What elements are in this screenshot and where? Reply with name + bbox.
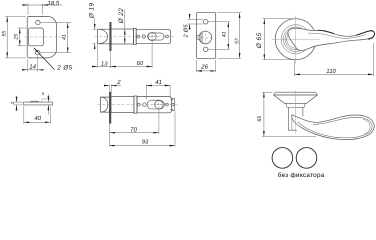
faceplate top hole [203, 19, 208, 24]
svg-text:14: 14 [29, 63, 36, 70]
svg-text:55: 55 [2, 31, 8, 37]
side view centerline [295, 90, 297, 133]
latch2 end tab hole [172, 103, 175, 106]
latch2 hole A [137, 103, 140, 106]
dim 2 dia5 faceplate [188, 18, 203, 20]
svg-text:18,5: 18,5 [48, 0, 60, 7]
latch2 tail plate [137, 96, 172, 112]
svg-text:Ø 19: Ø 19 [88, 2, 95, 19]
dim 57 faceplate [217, 12, 241, 14]
lever tip accent [356, 31, 374, 40]
dim 2 side [14, 101, 23, 103]
dim 25 [18, 27, 27, 29]
svg-text:13: 13 [101, 60, 108, 67]
strike plate centerline [25, 36, 62, 38]
latch1 collar [134, 28, 137, 44]
latch2 centerline [98, 104, 178, 106]
latch2 hole B [143, 103, 147, 107]
latch2 faceplate edge [109, 92, 111, 123]
latch1 tail plate [136, 29, 171, 43]
svg-text:26: 26 [200, 63, 208, 70]
latch2 bolt [100, 97, 111, 112]
svg-text:93: 93 [142, 139, 149, 146]
leader 2 dia 5 [34, 48, 55, 70]
svg-text:40: 40 [34, 115, 41, 122]
svg-text:60: 60 [137, 60, 144, 67]
strike plate cutout [28, 28, 43, 46]
dim dia65 top [263, 18, 296, 20]
strike plate front view body [27, 16, 56, 58]
svg-text:41: 41 [155, 79, 162, 86]
faceplate centerlines [198, 37, 214, 39]
grip inner accent [363, 119, 370, 134]
latch1 faceplate edge [110, 22, 112, 50]
latch1 bolt [97, 29, 110, 44]
latch2 hole C [166, 103, 169, 106]
svg-text:41: 41 [61, 34, 67, 40]
svg-text:65: 65 [257, 116, 263, 122]
lever crease line [308, 33, 366, 38]
latch1 spindle hub [148, 32, 156, 40]
svg-text:без фиксатора: без фиксатора [278, 172, 325, 179]
latch1 hole A [137, 35, 140, 38]
latch2 end tab [170, 99, 174, 111]
dim 55 [5, 15, 26, 17]
dim 2 latch2 [108, 85, 110, 91]
latch1 hole B [142, 35, 145, 38]
latch2 collar [134, 96, 137, 113]
dim 41 strike [41, 22, 72, 24]
rose crosshair [272, 38, 320, 40]
svg-text:2: 2 [116, 79, 121, 86]
option circle right [296, 148, 317, 169]
svg-text:25: 25 [13, 34, 19, 41]
latch2 cam slot [147, 100, 164, 109]
dim 65 side [262, 91, 272, 93]
latch2 body [111, 97, 134, 113]
latch1 hole C [166, 35, 169, 38]
latch1 body [111, 29, 133, 44]
faceplate bolt circle [199, 31, 212, 44]
lever mid accent [318, 30, 335, 33]
dim 14 [26, 59, 28, 71]
faceplate guide tab [196, 36, 199, 40]
dim 13 and 60 [96, 45, 98, 68]
svg-text:41: 41 [221, 31, 227, 37]
dim 70 and 93 [108, 124, 110, 147]
option circle left [272, 148, 293, 169]
faceplate bottom hole [203, 47, 208, 52]
strike side tick [41, 101, 43, 103]
svg-text:2: 2 [10, 101, 15, 105]
handle grip side view [292, 115, 375, 140]
strike plate bottom hole [36, 51, 40, 55]
rose collar [286, 103, 305, 107]
handle side view rose band1 [276, 91, 316, 93]
latch faceplate front view [196, 13, 215, 59]
dim 18,5 [27, 3, 29, 14]
svg-text:70: 70 [130, 126, 137, 133]
grip inner loop [298, 117, 372, 138]
latch2 spindle hub [155, 100, 163, 108]
svg-text:2 Ø5: 2 Ø5 [56, 64, 72, 71]
latch1 centerline [95, 36, 174, 38]
svg-text:2 Ø5: 2 Ø5 [184, 24, 190, 39]
rose slope [274, 95, 318, 103]
strike plate side lip [30, 100, 39, 103]
svg-text:110: 110 [326, 68, 336, 75]
handle top view rose [275, 19, 316, 60]
latch1 cam slot [148, 33, 165, 40]
dim 40 [23, 106, 25, 123]
dim 110 [294, 60, 296, 76]
strike plate side view bar [24, 102, 53, 105]
svg-text:Ø 22: Ø 22 [118, 8, 125, 25]
svg-text:Ø 65: Ø 65 [256, 32, 263, 49]
rose inner rings [281, 25, 310, 54]
dim 41 latch2 [145, 85, 147, 100]
dim 26 faceplate [195, 60, 197, 73]
strike plate top hole [36, 20, 40, 24]
dim 41 faceplate [208, 21, 230, 23]
dim 5 side [41, 98, 51, 100]
handle lever top view [288, 28, 374, 50]
handle neck [287, 107, 289, 130]
